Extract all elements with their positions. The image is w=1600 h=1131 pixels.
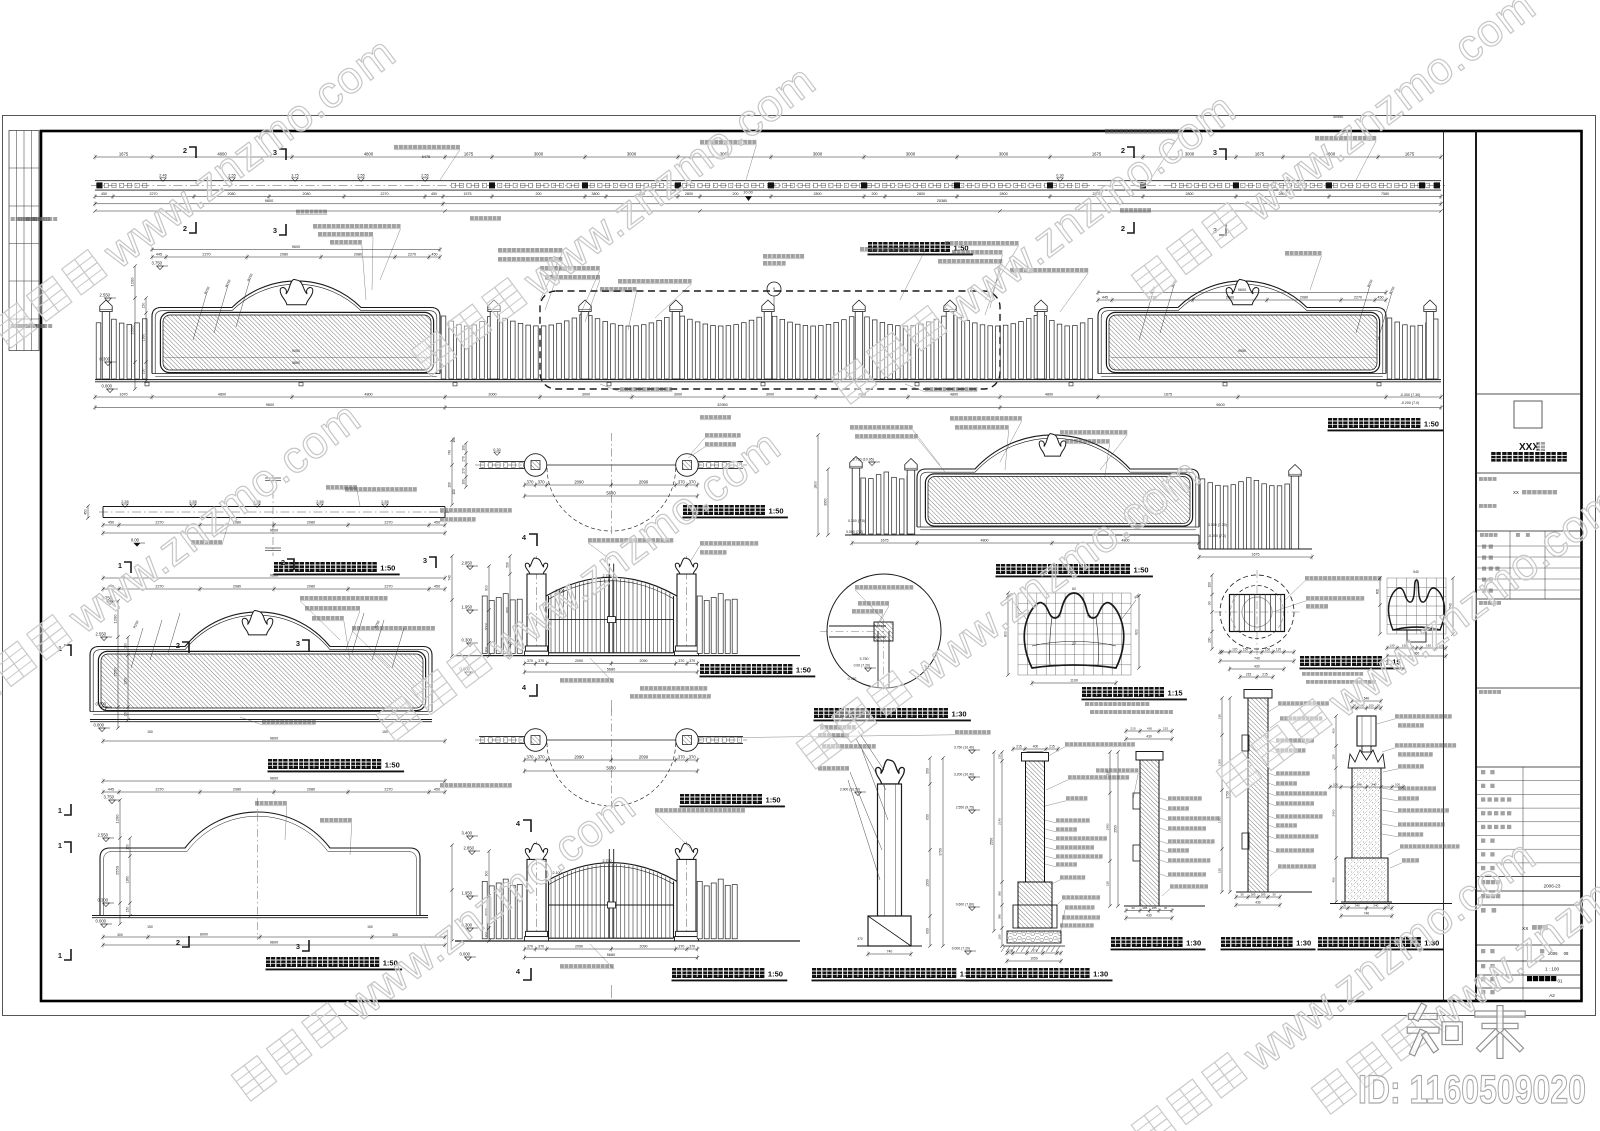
svg-text:1675: 1675: [1092, 151, 1102, 156]
svg-text:1950: 1950: [141, 334, 145, 342]
svg-text:1100: 1100: [1070, 678, 1078, 682]
svg-text:9600: 9600: [270, 776, 278, 780]
svg-text:215: 215: [1262, 672, 1268, 676]
svg-text:2080: 2080: [307, 584, 315, 588]
svg-text:215: 215: [1246, 672, 1252, 676]
svg-text:1:50: 1:50: [380, 564, 395, 573]
svg-text:2090: 2090: [575, 944, 583, 948]
svg-text:370: 370: [538, 659, 544, 663]
svg-text:1: 1: [58, 806, 62, 815]
svg-text:2270: 2270: [1354, 295, 1362, 299]
svg-text:2080: 2080: [1300, 295, 1308, 299]
svg-text:3: 3: [1213, 148, 1217, 157]
svg-text:ID: 1160509020: ID: 1160509020: [1358, 1068, 1586, 1112]
svg-text:3000: 3000: [674, 392, 682, 396]
svg-text:9600: 9600: [270, 573, 278, 577]
svg-text:100: 100: [1395, 782, 1400, 786]
svg-text:2080: 2080: [307, 520, 315, 524]
svg-text:2090: 2090: [639, 754, 649, 759]
svg-text:2.900 (10.50): 2.900 (10.50): [840, 788, 860, 792]
svg-text:2550: 2550: [114, 865, 119, 875]
svg-text:120: 120: [1232, 647, 1238, 651]
svg-text:30: 30: [1272, 892, 1276, 896]
svg-text:1800: 1800: [813, 481, 817, 489]
svg-text:4800: 4800: [218, 392, 226, 396]
svg-text:1950: 1950: [1217, 816, 1221, 823]
svg-text:01: 01: [1557, 979, 1563, 984]
svg-text:300: 300: [484, 647, 488, 653]
svg-text:740: 740: [1254, 656, 1260, 660]
svg-text:370: 370: [527, 754, 535, 759]
svg-text:650: 650: [925, 814, 929, 820]
svg-text:380: 380: [997, 914, 1001, 919]
svg-text:2550: 2550: [1113, 825, 1117, 833]
svg-text:3.750: 3.750: [104, 795, 115, 800]
svg-text:0.300: 0.300: [462, 638, 473, 643]
svg-text:2.550: 2.550: [100, 293, 111, 298]
svg-text:240: 240: [1371, 782, 1376, 786]
svg-text:3.75: 3.75: [291, 174, 298, 178]
svg-text:1675: 1675: [1405, 151, 1415, 156]
svg-text:90: 90: [1207, 601, 1211, 605]
svg-text:1950: 1950: [925, 879, 929, 887]
svg-text:2080: 2080: [303, 192, 311, 196]
svg-text:7580: 7580: [1381, 192, 1389, 196]
svg-text:400: 400: [1033, 744, 1039, 748]
svg-text:2: 2: [183, 146, 187, 155]
svg-text:2.750: 2.750: [603, 859, 612, 863]
svg-text:1950: 1950: [1105, 823, 1109, 830]
svg-text:370: 370: [538, 754, 546, 759]
svg-text:25380: 25380: [937, 199, 948, 203]
svg-text:3000: 3000: [627, 151, 637, 156]
svg-text:3: 3: [273, 226, 277, 235]
svg-text:150: 150: [997, 934, 1001, 939]
svg-text:740: 740: [1364, 911, 1370, 915]
svg-text:XX: XX: [1513, 490, 1519, 495]
svg-text:215: 215: [1163, 726, 1168, 730]
svg-text:100: 100: [1207, 582, 1211, 588]
svg-text:1200: 1200: [129, 277, 134, 287]
svg-text:1: 1: [772, 288, 775, 294]
svg-text:2.55: 2.55: [381, 500, 388, 504]
svg-text:1:50: 1:50: [1134, 566, 1149, 575]
svg-text:0.300 (7.5): 0.300 (7.5): [848, 519, 865, 523]
svg-text:5680: 5680: [607, 953, 615, 957]
svg-text:150: 150: [1331, 754, 1335, 759]
svg-text:100: 100: [1207, 637, 1211, 643]
svg-text:1675: 1675: [1252, 552, 1260, 556]
svg-text:1950: 1950: [123, 677, 127, 685]
svg-text:2080: 2080: [1226, 295, 1234, 299]
svg-text:2080: 2080: [307, 787, 315, 791]
svg-text:1: 1: [58, 841, 62, 850]
svg-text:0.000 (7.20): 0.000 (7.20): [952, 947, 970, 951]
svg-text:370: 370: [689, 659, 695, 663]
svg-text:450: 450: [434, 520, 440, 524]
svg-text:1:50: 1:50: [796, 666, 811, 675]
svg-text:3: 3: [296, 639, 300, 648]
svg-text:3000: 3000: [813, 151, 823, 156]
svg-text:-0.200 (7.0): -0.200 (7.0): [1208, 534, 1226, 538]
svg-text:1000: 1000: [1217, 759, 1221, 766]
svg-text:150: 150: [367, 925, 373, 929]
svg-text:430: 430: [1255, 900, 1261, 904]
svg-text:1675: 1675: [1255, 151, 1265, 156]
svg-text:-0.200 (7.0): -0.200 (7.0): [1401, 401, 1420, 405]
svg-text:3.200 (10.40): 3.200 (10.40): [954, 773, 974, 777]
svg-text:8900: 8900: [200, 932, 208, 936]
svg-text:450: 450: [1331, 877, 1335, 882]
svg-text:2270: 2270: [155, 787, 163, 791]
svg-text:5680: 5680: [607, 667, 615, 671]
svg-text:370: 370: [678, 754, 686, 759]
svg-text:3000: 3000: [534, 151, 544, 156]
svg-text:620: 620: [1134, 629, 1138, 635]
svg-text:1675: 1675: [464, 151, 474, 156]
svg-text:450: 450: [108, 520, 114, 524]
svg-text:1200: 1200: [114, 814, 119, 824]
svg-text:150: 150: [1265, 647, 1271, 651]
svg-text:450: 450: [434, 584, 440, 588]
svg-text:2090: 2090: [640, 659, 648, 663]
svg-text:445: 445: [108, 787, 114, 791]
svg-text:370: 370: [689, 754, 697, 759]
svg-text:100: 100: [461, 479, 465, 485]
svg-text:2080: 2080: [233, 584, 241, 588]
svg-text:2270: 2270: [384, 787, 392, 791]
svg-text:200: 200: [872, 192, 878, 196]
svg-text:5680: 5680: [606, 765, 616, 770]
svg-text:200: 200: [733, 192, 739, 196]
svg-text:9600: 9600: [1216, 403, 1224, 407]
svg-text:1 : 100: 1 : 100: [1545, 967, 1559, 972]
svg-text:2090: 2090: [574, 479, 584, 484]
svg-text:9600: 9600: [265, 199, 273, 203]
svg-text:9600: 9600: [292, 245, 300, 249]
svg-text:2: 2: [1121, 224, 1125, 233]
svg-text:-0.300 (7.30): -0.300 (7.30): [1400, 393, 1421, 397]
svg-text:370: 370: [527, 944, 533, 948]
svg-text:100: 100: [452, 489, 456, 495]
svg-text:30: 30: [1240, 892, 1244, 896]
svg-text:2.46: 2.46: [159, 174, 166, 178]
svg-text:0.000: 0.000: [96, 919, 107, 924]
svg-text:1:30: 1:30: [1296, 939, 1311, 948]
svg-text:2140: 2140: [997, 818, 1001, 825]
svg-text:1675: 1675: [119, 151, 129, 156]
svg-text:150: 150: [1217, 868, 1221, 873]
svg-text:450: 450: [101, 192, 107, 196]
svg-text:215: 215: [1016, 744, 1022, 748]
svg-text:1050: 1050: [1030, 956, 1038, 960]
svg-text:2270: 2270: [381, 192, 389, 196]
svg-text:2270: 2270: [384, 584, 392, 588]
svg-text:1:50: 1:50: [769, 507, 784, 516]
svg-text:3000: 3000: [582, 392, 590, 396]
svg-text:1575: 1575: [464, 192, 472, 196]
svg-text:3000: 3000: [999, 151, 1009, 156]
svg-text:150: 150: [125, 907, 129, 913]
svg-text:370: 370: [1032, 948, 1037, 952]
svg-text:9600: 9600: [1238, 288, 1246, 292]
svg-text:9600: 9600: [270, 528, 278, 532]
svg-text:370: 370: [857, 937, 863, 941]
svg-text:2006-23: 2006-23: [1544, 884, 1561, 889]
svg-text:2550: 2550: [989, 838, 993, 846]
svg-text:2: 2: [176, 938, 180, 947]
svg-text:1:30: 1:30: [1186, 939, 1201, 948]
svg-text:0.00 (7.20): 0.00 (7.20): [854, 664, 870, 668]
svg-text:4800: 4800: [1045, 392, 1053, 396]
svg-text:2.55: 2.55: [316, 500, 323, 504]
svg-text:1:50: 1:50: [766, 796, 781, 805]
svg-text:9050: 9050: [1238, 349, 1246, 353]
svg-text:0.300: 0.300: [96, 702, 107, 707]
svg-text:370: 370: [678, 944, 684, 948]
svg-text:160: 160: [452, 437, 456, 443]
svg-text:150: 150: [147, 925, 153, 929]
svg-text:200: 200: [536, 192, 542, 196]
svg-text:4800: 4800: [364, 151, 374, 156]
svg-text:30: 30: [1387, 903, 1391, 907]
svg-text:1.950: 1.950: [462, 605, 473, 610]
svg-text:10.00: 10.00: [743, 191, 753, 195]
svg-text:32950: 32950: [717, 403, 728, 407]
svg-text:1:50: 1:50: [768, 970, 783, 979]
svg-text:270: 270: [461, 456, 465, 462]
svg-text:150: 150: [123, 711, 127, 717]
svg-text:0.000: 0.000: [94, 723, 105, 728]
svg-text:450: 450: [431, 192, 437, 196]
svg-text:4800: 4800: [981, 538, 989, 542]
svg-text:150: 150: [147, 730, 153, 734]
svg-text:5680: 5680: [606, 490, 616, 495]
svg-text:1:30: 1:30: [952, 710, 967, 719]
svg-text:150: 150: [125, 844, 129, 850]
svg-text:2: 2: [176, 641, 180, 650]
svg-text:0.300: 0.300: [100, 357, 111, 362]
svg-text:150: 150: [141, 369, 145, 375]
svg-text:2550: 2550: [129, 325, 134, 335]
svg-text:3.750: 3.750: [860, 657, 869, 661]
svg-text:3950: 3950: [823, 498, 827, 506]
svg-text:1:15: 1:15: [1168, 689, 1183, 698]
svg-text:430: 430: [1146, 734, 1152, 738]
svg-text:150: 150: [382, 730, 388, 734]
svg-text:900: 900: [484, 585, 488, 591]
svg-text:9600: 9600: [292, 361, 300, 365]
svg-text:370: 370: [538, 944, 544, 948]
svg-text:450: 450: [1377, 295, 1383, 299]
svg-text:2: 2: [281, 558, 285, 567]
svg-text:2.55: 2.55: [357, 174, 364, 178]
svg-text:2550: 2550: [112, 667, 117, 677]
svg-text:430: 430: [1147, 726, 1152, 730]
svg-text:185: 185: [1260, 892, 1265, 896]
svg-text:3000: 3000: [766, 392, 774, 396]
svg-text:30: 30: [1164, 906, 1168, 910]
svg-text:370: 370: [527, 659, 533, 663]
svg-text:600: 600: [925, 928, 929, 934]
svg-text:430: 430: [1254, 664, 1260, 668]
svg-text:0.100 (7.30): 0.100 (7.30): [1208, 523, 1227, 527]
svg-text:4800: 4800: [950, 392, 958, 396]
svg-text:3: 3: [423, 556, 427, 565]
svg-text:215: 215: [1049, 744, 1055, 748]
svg-text:150: 150: [997, 754, 1001, 759]
svg-text:185: 185: [1142, 906, 1147, 910]
svg-text:445: 445: [1102, 295, 1108, 299]
svg-text:215: 215: [1130, 726, 1135, 730]
svg-text:2080: 2080: [233, 787, 241, 791]
svg-text:500: 500: [925, 768, 929, 774]
svg-text:400: 400: [1331, 728, 1335, 733]
svg-text:6475: 6475: [422, 155, 430, 159]
svg-text:370: 370: [689, 944, 695, 948]
svg-text:100: 100: [1333, 782, 1338, 786]
svg-text:1: 1: [58, 951, 62, 960]
svg-text:150: 150: [123, 643, 127, 649]
svg-text:3.400: 3.400: [462, 831, 473, 836]
svg-text:2090: 2090: [640, 944, 648, 948]
svg-text:3000: 3000: [906, 151, 916, 156]
svg-text:0.300: 0.300: [98, 898, 109, 903]
svg-text:100: 100: [461, 445, 465, 451]
svg-text:2800: 2800: [1000, 192, 1008, 196]
svg-text:2800: 2800: [1186, 192, 1194, 196]
svg-text:0.600 (7.80): 0.600 (7.80): [956, 903, 974, 907]
svg-text:2400: 2400: [1331, 809, 1335, 816]
svg-text:360: 360: [997, 891, 1001, 896]
svg-text:450: 450: [83, 509, 87, 515]
svg-text:2.550 (9.75): 2.550 (9.75): [956, 806, 974, 810]
svg-text:185: 185: [1250, 892, 1255, 896]
svg-text:430: 430: [1146, 913, 1152, 917]
svg-text:740: 740: [447, 450, 451, 456]
svg-text:185: 185: [1152, 906, 1157, 910]
svg-text:340: 340: [1355, 903, 1360, 907]
svg-text:4800: 4800: [364, 392, 372, 396]
svg-text:9600: 9600: [266, 403, 274, 407]
svg-text:300: 300: [117, 933, 123, 937]
svg-text:370: 370: [527, 479, 535, 484]
svg-text:2270: 2270: [384, 520, 392, 524]
svg-text:1675: 1675: [881, 538, 889, 542]
svg-text:150: 150: [1105, 881, 1109, 886]
svg-text:3800: 3800: [592, 192, 600, 196]
svg-text:2800: 2800: [917, 192, 925, 196]
svg-text:370: 370: [678, 659, 684, 663]
svg-text:A2: A2: [1549, 993, 1555, 998]
svg-text:1:50: 1:50: [385, 761, 400, 770]
svg-text:270: 270: [461, 468, 465, 474]
svg-text:1:30: 1:30: [1093, 970, 1108, 979]
svg-text:540: 540: [1413, 570, 1419, 574]
svg-text:9050: 9050: [292, 349, 300, 353]
svg-text:100: 100: [1007, 948, 1012, 952]
svg-text:9600: 9600: [270, 940, 278, 944]
svg-text:2.55: 2.55: [121, 500, 128, 504]
svg-text:150: 150: [1217, 714, 1221, 719]
svg-text:3.750 (10.95): 3.750 (10.95): [853, 458, 874, 462]
svg-text:2090: 2090: [575, 659, 583, 663]
svg-text:3750: 3750: [938, 848, 942, 856]
svg-text:740: 740: [887, 949, 893, 953]
svg-text:2080: 2080: [280, 252, 288, 256]
svg-text:2.55: 2.55: [421, 174, 428, 178]
svg-text:3750: 3750: [1225, 791, 1229, 799]
svg-text:2.850: 2.850: [462, 561, 473, 566]
svg-text:2090: 2090: [574, 754, 584, 759]
svg-text:1950: 1950: [125, 876, 129, 884]
svg-text:30: 30: [1343, 903, 1347, 907]
svg-text:450: 450: [434, 787, 440, 791]
svg-text:2800: 2800: [814, 192, 822, 196]
svg-text:0.000: 0.000: [102, 384, 113, 389]
svg-text:450: 450: [431, 252, 437, 256]
svg-text:0.750: 0.750: [848, 677, 857, 681]
svg-text:500: 500: [505, 562, 509, 568]
svg-text:1675: 1675: [1164, 392, 1172, 396]
svg-text:2270: 2270: [408, 252, 416, 256]
svg-text:2080: 2080: [354, 252, 362, 256]
svg-text:2090: 2090: [639, 479, 649, 484]
svg-text:9600: 9600: [270, 736, 278, 740]
svg-text:3.750: 3.750: [152, 261, 163, 266]
svg-text:2.850: 2.850: [464, 846, 475, 851]
svg-text:600: 600: [1375, 589, 1379, 595]
svg-text:100: 100: [447, 482, 451, 488]
svg-text:3000: 3000: [488, 392, 496, 396]
svg-text:0.30: 0.30: [1056, 174, 1063, 178]
svg-text:1:50: 1:50: [1424, 420, 1439, 429]
svg-text:2.550: 2.550: [98, 833, 109, 838]
svg-text:27: 27: [1072, 642, 1076, 646]
svg-text:0.000 (7.2): 0.000 (7.2): [846, 530, 863, 534]
svg-text:240: 240: [1357, 782, 1362, 786]
svg-text:300: 300: [392, 933, 398, 937]
svg-text:340: 340: [1373, 903, 1378, 907]
svg-text:150: 150: [141, 303, 145, 309]
svg-text:740: 740: [447, 575, 451, 581]
svg-text:370: 370: [538, 479, 546, 484]
svg-text:3.750 (10.40): 3.750 (10.40): [954, 746, 974, 750]
svg-text:1670: 1670: [119, 392, 127, 396]
svg-text:120: 120: [1276, 647, 1282, 651]
svg-text:30: 30: [1131, 906, 1135, 910]
svg-text:3: 3: [296, 942, 300, 951]
svg-text:2270: 2270: [202, 252, 210, 256]
svg-text:150: 150: [1243, 647, 1249, 651]
svg-text:0.30: 0.30: [493, 448, 500, 452]
